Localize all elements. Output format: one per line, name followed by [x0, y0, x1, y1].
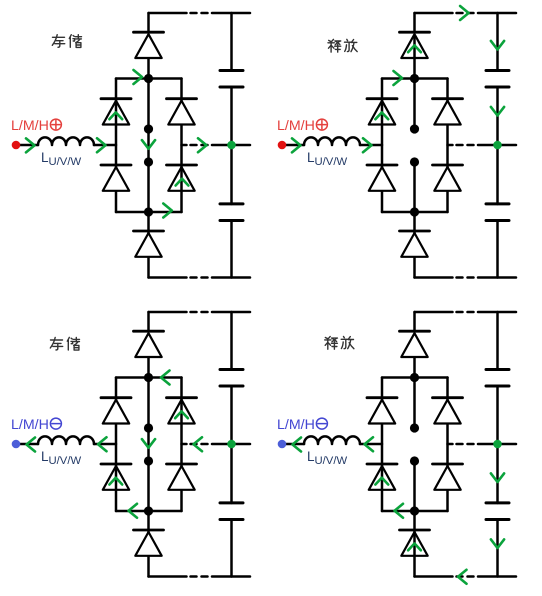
wire: top rail to diode D1	[413, 13, 416, 32]
current arrow (in D1)	[408, 45, 421, 52]
wire: capacitor string column	[496, 13, 499, 278]
node P junction	[144, 373, 153, 382]
wire: center link	[147, 79, 150, 213]
wire: center link lower stub	[413, 461, 416, 511]
wire: center link lower stub	[413, 162, 416, 212]
wire: node N to bottom rail through diode D6	[147, 212, 150, 278]
diode D3 (upper right)	[433, 398, 463, 424]
current arrow (in D3)	[175, 411, 188, 418]
label mode	[50, 337, 79, 350]
current arrow (center link)	[142, 439, 155, 448]
node P junction	[410, 373, 419, 382]
current arrow (lower bus)	[395, 504, 404, 518]
wire: capacitor string column	[230, 13, 233, 278]
label mode	[328, 39, 357, 52]
diode D1 (top middle)	[134, 331, 164, 357]
node center-lower junction	[410, 456, 419, 465]
diode D2 (upper left)	[101, 99, 131, 125]
label L/M/H terminal	[11, 118, 61, 134]
current arrow (center link)	[142, 140, 155, 149]
diode D4 (lower left)	[367, 165, 397, 191]
wire: upper node bus	[116, 376, 182, 379]
wire: node N to bottom rail through diode D6	[147, 511, 150, 577]
current arrow (in D4)	[375, 478, 388, 485]
node M (capacitor midpoint)	[227, 440, 236, 449]
svg-text:L/M/H: L/M/H	[11, 118, 49, 134]
node center-upper junction	[144, 423, 153, 432]
capacitor C2 (lower)	[486, 503, 509, 520]
inductor L_U/V/W	[304, 137, 360, 145]
diode D1 (top middle)	[400, 331, 430, 357]
diode D5 (lower right)	[167, 165, 197, 191]
node M (capacitor midpoint)	[227, 141, 236, 150]
wire: top rail to diode D1	[147, 312, 150, 331]
label L/M/H terminal	[277, 118, 327, 134]
current arrow (in D5)	[176, 179, 189, 186]
node N junction	[410, 207, 419, 216]
wire: left branch	[381, 79, 384, 213]
diode D3 (upper right)	[167, 398, 197, 424]
label L/M/H terminal	[277, 417, 327, 433]
terminal L/M/H	[278, 440, 287, 449]
capacitor C2 (lower)	[486, 204, 509, 221]
label L/M/H terminal	[11, 417, 61, 433]
diode D6 (bottom middle)	[400, 530, 430, 556]
terminal L/M/H	[12, 440, 21, 449]
inductor L_U/V/W	[38, 137, 94, 145]
value label L U/V/W	[307, 449, 347, 467]
diode D2 (upper left)	[367, 99, 397, 125]
label mode	[325, 337, 354, 350]
current arrow (bottom rail)	[458, 570, 467, 584]
node center-lower junction	[144, 157, 153, 166]
inductor L_U/V/W	[38, 436, 94, 444]
capacitor C1 (upper)	[486, 369, 509, 386]
diode D1 (top middle)	[400, 32, 430, 58]
wire: phase input lead	[16, 144, 116, 147]
current arrow (out of bridge)	[98, 437, 107, 451]
wire: upper node bus	[382, 77, 448, 80]
wire: phase input lead	[16, 443, 116, 446]
node center-upper junction	[144, 124, 153, 133]
wire: lower node bus	[382, 211, 448, 214]
label mode	[52, 35, 81, 48]
capacitor C2 (lower)	[220, 503, 243, 520]
current arrow (lower bus)	[129, 504, 138, 518]
diode D6 (bottom middle)	[134, 530, 164, 556]
capacitor C1 (upper)	[486, 70, 509, 87]
current arrow (in D2)	[109, 112, 122, 119]
wire: DC+ top rail	[149, 311, 251, 314]
node center-upper junction	[410, 423, 419, 432]
node M (capacitor midpoint)	[493, 141, 502, 150]
node center-lower junction	[410, 157, 419, 166]
wire: dashed link to capacitor midpoint M	[448, 443, 517, 446]
wire: diode D1 to node P	[413, 58, 416, 79]
terminal L/M/H	[278, 141, 287, 150]
wire: node N to bottom rail through diode D6	[413, 212, 416, 278]
wire: center link upper stub	[413, 378, 416, 429]
wire: center link	[147, 378, 150, 512]
wire: DC+ top rail	[149, 12, 251, 15]
wire: DC- bottom rail	[415, 276, 517, 279]
wire: upper node bus	[382, 376, 448, 379]
capacitor C1 (upper)	[220, 369, 243, 386]
wire: DC+ top rail	[415, 12, 517, 15]
svg-text:L/M/H: L/M/H	[11, 417, 49, 433]
diode D3 (upper right)	[167, 99, 197, 125]
current arrow (input)	[26, 138, 35, 152]
current arrow (into C1)	[491, 41, 504, 50]
node M (capacitor midpoint)	[493, 440, 502, 449]
diode D1 (top middle)	[134, 32, 164, 58]
inductor L_U/V/W	[304, 436, 360, 444]
diode D6 (bottom middle)	[134, 231, 164, 257]
diode D5 (lower right)	[433, 165, 463, 191]
terminal L/M/H	[12, 141, 21, 150]
wire: right branch	[446, 378, 449, 512]
wire: left branch	[381, 378, 384, 512]
current arrow (out of C2)	[491, 539, 504, 548]
current arrow (to midpoint)	[491, 107, 504, 116]
diode D4 (lower left)	[101, 165, 131, 191]
wire: DC- bottom rail	[149, 575, 251, 578]
current arrow (lower bus)	[163, 204, 172, 218]
wire: lower node bus	[382, 510, 448, 513]
wire: lower node bus	[116, 510, 182, 513]
current arrow (into bridge)	[97, 138, 106, 152]
wire: left branch	[115, 79, 118, 213]
wire: DC+ top rail	[415, 311, 517, 314]
current arrow (output)	[27, 438, 36, 452]
diode D2 (upper left)	[367, 398, 397, 424]
node N junction	[144, 207, 153, 216]
wire: left branch	[115, 378, 118, 512]
current arrow (top rail)	[460, 6, 469, 20]
value label L U/V/W	[41, 150, 81, 168]
wire: top rail to diode D1	[147, 13, 150, 32]
wire: diode D1 to node P	[147, 58, 150, 79]
wire: right branch	[180, 378, 183, 512]
wire: DC- bottom rail	[149, 276, 251, 279]
wire: right branch	[446, 79, 449, 213]
current arrow (to midpoint)	[198, 138, 207, 152]
wire: dashed link to capacitor midpoint M	[448, 144, 517, 147]
node N junction	[410, 506, 419, 515]
current arrow (from midpoint)	[491, 473, 504, 482]
current arrow (input)	[292, 138, 301, 152]
svg-text:U/V/W: U/V/W	[49, 455, 82, 467]
node P junction	[144, 74, 153, 83]
diode D5 (lower right)	[167, 464, 197, 490]
wire: dashed link to capacitor midpoint M	[182, 443, 251, 446]
current arrow (in D2)	[375, 112, 388, 119]
current arrow (upper bus)	[161, 371, 170, 385]
svg-text:U/V/W: U/V/W	[315, 455, 348, 467]
wire: top rail to diode D1	[413, 312, 416, 331]
capacitor C2 (lower)	[220, 204, 243, 221]
current arrow (out of bridge)	[365, 437, 374, 451]
diode D4 (lower left)	[101, 464, 131, 490]
current arrow (in D4)	[109, 478, 122, 485]
wire: node N to bottom rail through diode D6	[413, 511, 416, 577]
diode D2 (upper left)	[101, 398, 131, 424]
diode D4 (lower left)	[367, 464, 397, 490]
wire: dashed link to capacitor midpoint M	[182, 144, 251, 147]
wire: phase input lead	[282, 443, 382, 446]
node P junction	[410, 74, 419, 83]
svg-text:U/V/W: U/V/W	[49, 156, 82, 168]
wire: capacitor string column	[496, 312, 499, 577]
current arrow (upper bus)	[394, 71, 403, 85]
wire: center link upper stub	[413, 79, 416, 130]
wire: diode D1 to node P	[147, 357, 150, 378]
value label L U/V/W	[41, 449, 81, 467]
svg-text:L/M/H: L/M/H	[277, 417, 315, 433]
diode D6 (bottom middle)	[400, 231, 430, 257]
node center-lower junction	[144, 456, 153, 465]
wire: DC- bottom rail	[415, 575, 517, 578]
diode D3 (upper right)	[433, 99, 463, 125]
wire: lower node bus	[116, 211, 182, 214]
diode D5 (lower right)	[433, 464, 463, 490]
node center-upper junction	[410, 124, 419, 133]
value label L U/V/W	[307, 150, 347, 168]
current arrow (in D6)	[408, 544, 421, 551]
wire: capacitor string column	[230, 312, 233, 577]
wire: upper node bus	[116, 77, 182, 80]
current arrow (from midpoint)	[194, 437, 203, 451]
wire: diode D1 to node P	[413, 357, 416, 378]
wire: right branch	[180, 79, 183, 213]
current arrow (upper bus)	[134, 70, 143, 84]
node N junction	[144, 506, 153, 515]
wire: phase input lead	[282, 144, 382, 147]
svg-text:L/M/H: L/M/H	[277, 118, 315, 134]
current arrow (output)	[293, 438, 302, 452]
current arrow (into bridge)	[363, 138, 372, 152]
capacitor C1 (upper)	[220, 70, 243, 87]
svg-text:U/V/W: U/V/W	[315, 156, 348, 168]
